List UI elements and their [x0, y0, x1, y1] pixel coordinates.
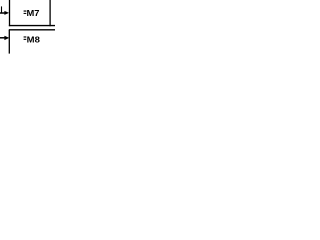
svg-text:M7: M7	[27, 8, 40, 18]
svg-text:M8: M8	[27, 34, 41, 44]
